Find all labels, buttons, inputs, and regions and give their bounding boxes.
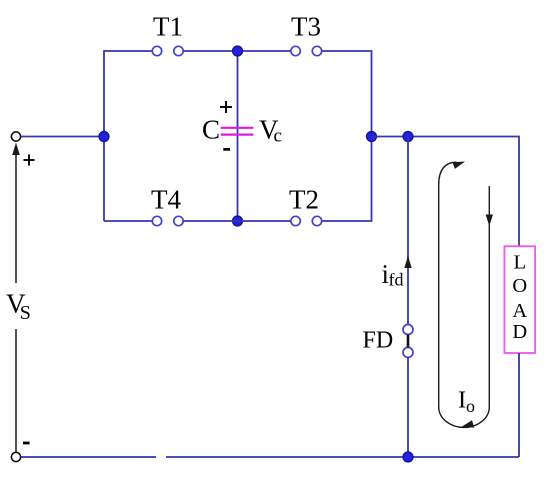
wire FD branch lower bbox=[407, 357, 409, 457]
source plus sign bbox=[24, 155, 35, 166]
wire bottom bridge rail right segment bbox=[322, 220, 372, 222]
current loop top arrowhead bbox=[453, 162, 466, 169]
switch T4 bbox=[152, 216, 183, 225]
source arrow up bbox=[12, 143, 20, 284]
wire center capacitor column bbox=[237, 51, 239, 221]
wire bridge to load bbox=[372, 136, 520, 138]
wire load right vertical lower bbox=[518, 353, 520, 457]
capacitor plus sign bbox=[220, 101, 232, 113]
terminal negative source bbox=[11, 452, 20, 461]
capacitor C plates bbox=[221, 128, 254, 135]
label Vs bbox=[6, 288, 31, 324]
node bottom center junction bbox=[233, 216, 243, 226]
svg-text:T3: T3 bbox=[291, 11, 321, 41]
svg-text:FD: FD bbox=[363, 327, 394, 353]
node FD branch bottom junction bbox=[403, 452, 413, 462]
wire bottom rail right segment bbox=[166, 456, 519, 458]
terminal positive source bbox=[11, 132, 20, 141]
freewheeling diode FD terminals bbox=[403, 325, 413, 358]
label ifd bbox=[382, 259, 404, 290]
svg-text:I: I bbox=[458, 387, 466, 414]
current loop down arrowhead bbox=[486, 215, 493, 227]
wire right bridge vertical bbox=[371, 50, 373, 222]
svg-text:A: A bbox=[512, 300, 527, 322]
node FD branch top junction bbox=[403, 132, 413, 142]
current loop Io left side and top arc bbox=[439, 162, 457, 409]
ifd arrow up bbox=[404, 256, 411, 268]
label LOAD bbox=[512, 252, 527, 344]
svg-text:S: S bbox=[20, 302, 31, 324]
node left bridge junction bbox=[99, 132, 109, 142]
wire top rail left segment bbox=[104, 50, 152, 52]
load box bbox=[504, 246, 535, 353]
label Io bbox=[458, 387, 475, 417]
wire source to bridge bbox=[21, 136, 104, 138]
wire bottom rail left segment bbox=[21, 456, 156, 458]
node top center junction bbox=[233, 46, 243, 56]
svg-text:fd: fd bbox=[389, 270, 404, 290]
wire bottom bridge rail middle segment bbox=[183, 220, 291, 222]
current loop right side bbox=[488, 186, 490, 407]
capacitor minus sign bbox=[223, 148, 230, 151]
label Vc bbox=[259, 115, 282, 147]
svg-text:T4: T4 bbox=[151, 184, 181, 214]
wire bottom bridge rail left segment bbox=[104, 220, 152, 222]
svg-text:c: c bbox=[274, 126, 282, 147]
wire FD branch upper bbox=[407, 137, 409, 325]
svg-text:o: o bbox=[466, 396, 475, 416]
wire left bridge vertical bbox=[103, 50, 105, 221]
switch T3 bbox=[291, 46, 322, 55]
switch T2 bbox=[291, 216, 322, 225]
current loop bottom arc bbox=[439, 407, 490, 427]
source minus sign bbox=[23, 442, 30, 445]
current loop bottom arrowhead bbox=[462, 420, 475, 427]
node right bridge junction bbox=[367, 132, 377, 142]
svg-text:C: C bbox=[202, 115, 220, 145]
switch T1 bbox=[152, 46, 183, 55]
wire load right vertical upper bbox=[518, 136, 520, 247]
svg-text:T1: T1 bbox=[153, 11, 183, 41]
svg-text:L: L bbox=[514, 252, 527, 274]
svg-text:T2: T2 bbox=[289, 184, 319, 214]
wire source lower segment (black) bbox=[15, 329, 17, 453]
wire top rail right segment bbox=[322, 50, 372, 52]
svg-text:D: D bbox=[512, 321, 527, 343]
wire top rail middle segment bbox=[183, 50, 291, 52]
svg-text:O: O bbox=[512, 275, 527, 297]
